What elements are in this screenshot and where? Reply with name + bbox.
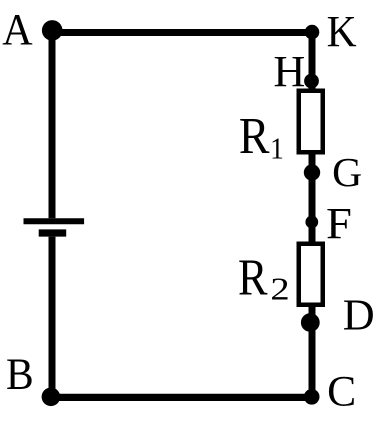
wire right K-H-R1 — [309, 32, 316, 89]
svg-text:R: R — [238, 249, 268, 306]
node K — [305, 25, 320, 40]
svg-text:G: G — [332, 149, 362, 195]
node G — [304, 164, 320, 180]
svg-text:K: K — [327, 7, 357, 56]
battery short plate (negative) — [39, 229, 66, 236]
resistor R1 — [299, 91, 323, 153]
wire bottom B-C — [51, 394, 312, 401]
svg-text:C: C — [327, 367, 356, 415]
node B — [42, 388, 61, 407]
wire top A-K — [52, 29, 312, 36]
wire right R2-D-C — [309, 306, 316, 397]
wire left lower battery-B — [49, 237, 56, 398]
svg-text:A: A — [2, 5, 32, 54]
wire right R1-G-F-R2 — [309, 154, 316, 242]
svg-text:H: H — [273, 47, 305, 96]
svg-text:B: B — [6, 350, 34, 399]
node F — [305, 216, 318, 229]
svg-text:F: F — [326, 199, 352, 248]
node A — [42, 20, 63, 41]
wire left upper A-battery — [49, 30, 56, 218]
resistor R2 — [299, 244, 323, 305]
svg-text:2: 2 — [270, 271, 289, 306]
svg-text:D: D — [343, 291, 375, 340]
battery long plate (positive) — [24, 218, 85, 224]
node H — [304, 74, 319, 89]
node D — [301, 313, 320, 332]
node C — [304, 389, 320, 405]
svg-text:1: 1 — [270, 130, 284, 165]
svg-text:R: R — [239, 108, 270, 165]
